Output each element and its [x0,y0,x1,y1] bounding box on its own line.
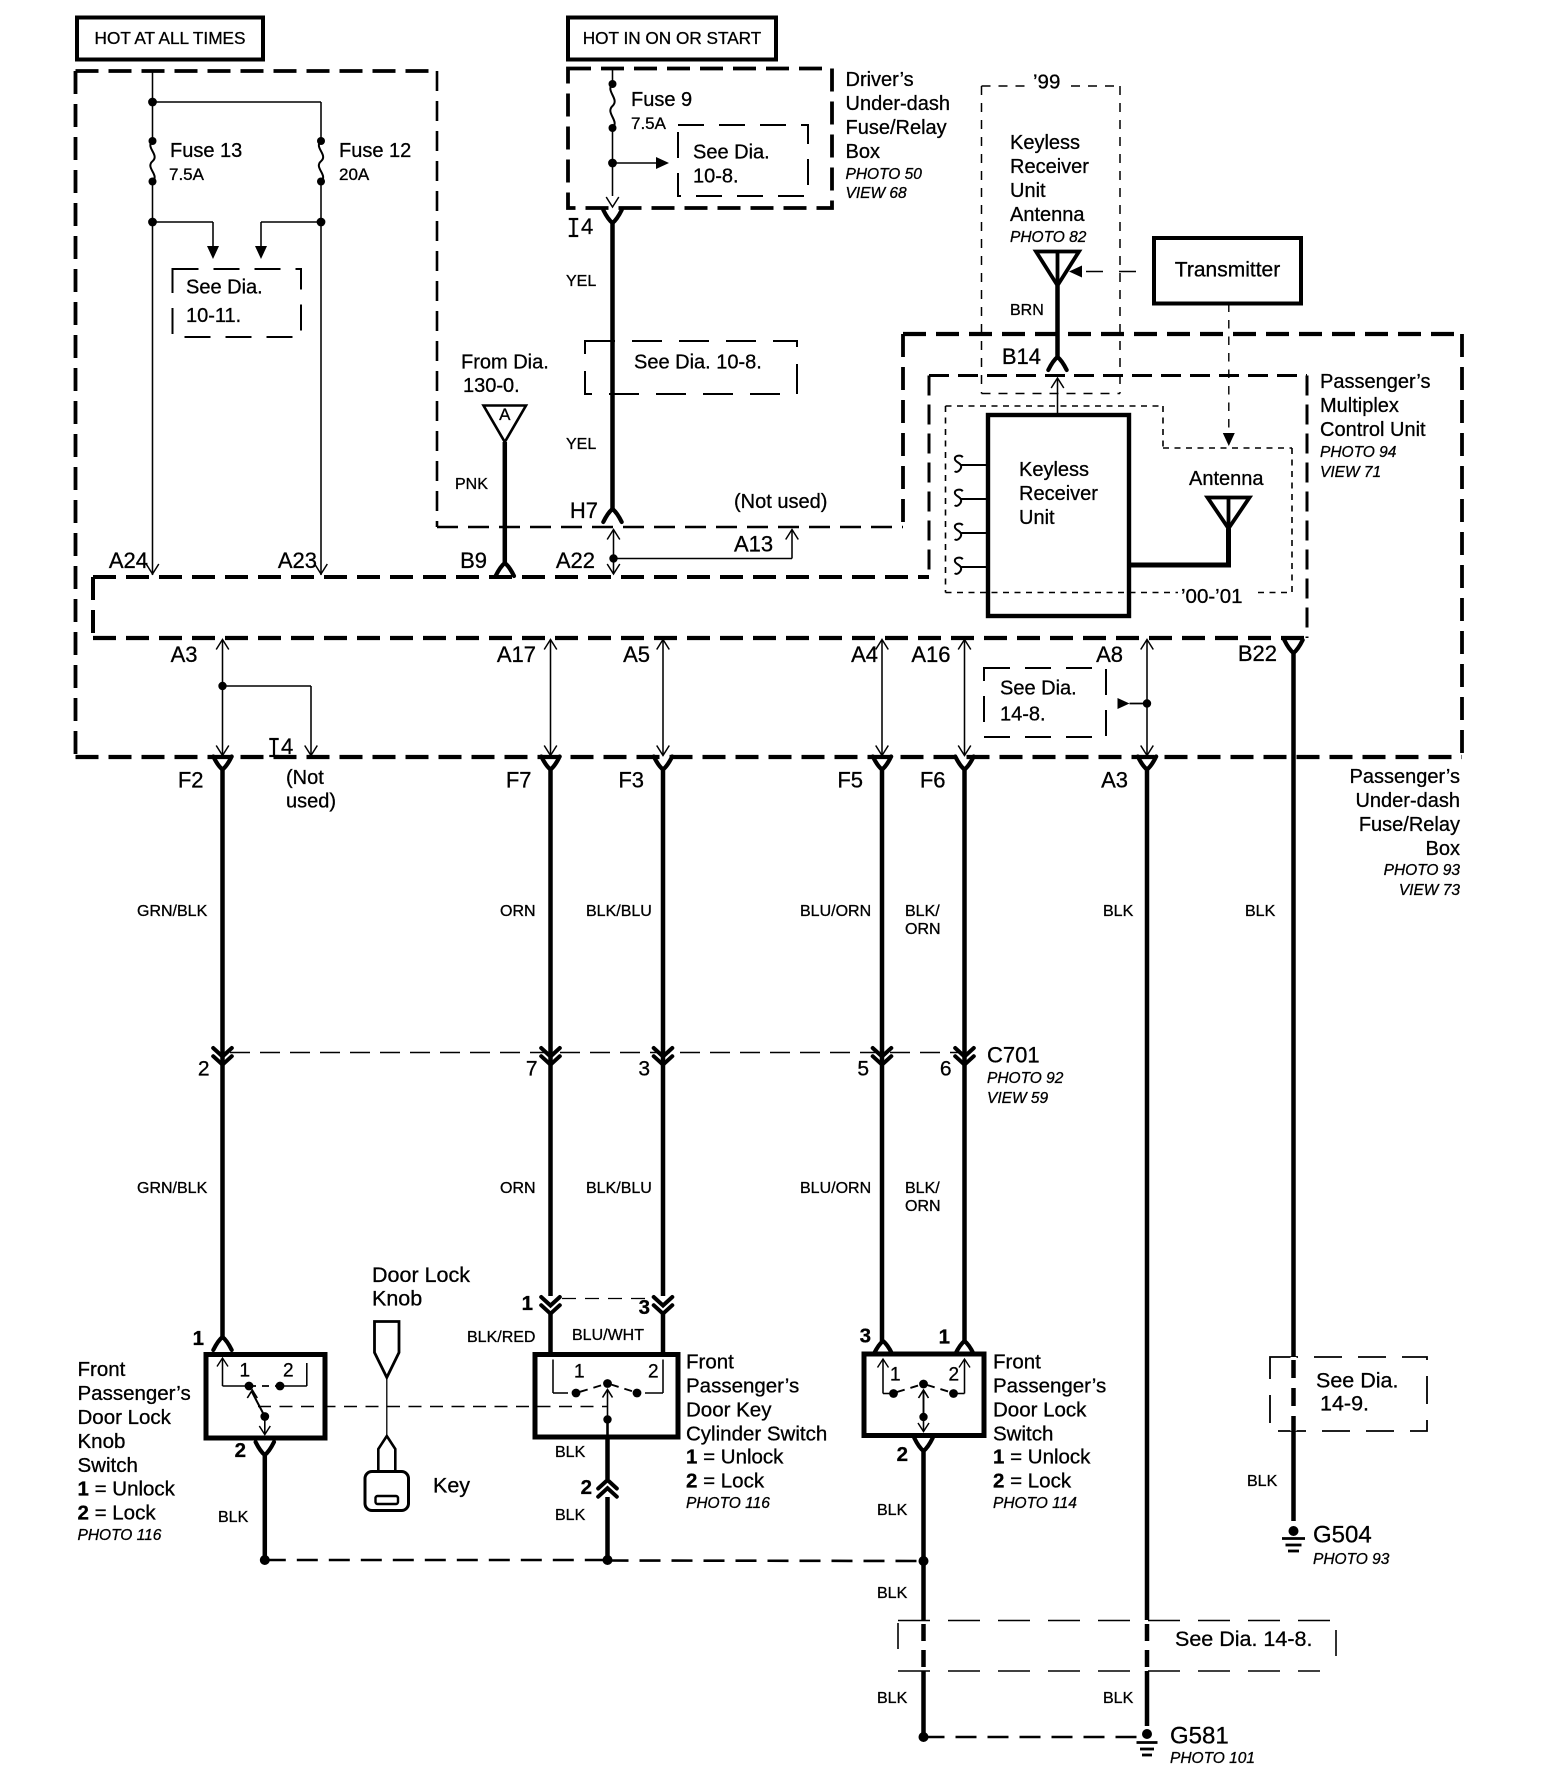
svg-text:BLU/ORN: BLU/ORN [800,1180,871,1197]
wire: fuse 13 output down to A24 [152,182,154,576]
knob switch wiper arm [252,1391,265,1417]
wire: branch from fuse 13 to See Dia. 10-11 [153,221,214,223]
lock switch pin 3 fork [874,1341,892,1354]
svg-text:2: 2 [283,1360,294,1381]
label box: HOT AT ALL TIMES [77,18,263,60]
svg-text:10-11.: 10-11. [186,305,241,327]
pin A16 to pin F6 wire [958,640,971,650]
in-line connector pin 1 (BLK/RED) [541,1297,560,1306]
passenger's under-dash fuse/relay box dashed line [76,755,1463,759]
svg-text:4: 4 [581,214,593,239]
svg-text:A17: A17 [497,642,536,667]
svg-text:Multiplex: Multiplex [1320,395,1399,417]
dashed link between in-line connector pins 1 and 3 [562,1298,652,1300]
rf signal dashed arrow from transmitter to '99 antenna [1086,271,1154,273]
svg-text:Keyless: Keyless [1010,132,1080,154]
svg-text:Antenna: Antenna [1010,204,1085,226]
svg-text:BLK: BLK [218,1509,249,1526]
pin A23 arrow into multiplex control unit [315,564,328,574]
wire BLU/ORN from F5 [880,770,885,1342]
wire: battery feed from HOT AT ALL TIMES to fuses [152,71,154,140]
fuse F13 7.5A [149,137,157,145]
svg-text:BLK/BLU: BLK/BLU [586,1180,652,1197]
key cylinder switch internal contacts [552,1360,554,1394]
svg-text:Door Lock: Door Lock [372,1263,470,1287]
svg-text:BLK: BLK [1103,1690,1134,1707]
svg-text:See Dia.: See Dia. [1316,1369,1398,1393]
lock switch common pole [919,1390,929,1398]
svg-text:PHOTO 50: PHOTO 50 [846,166,923,183]
wire BLU/WHT into key cylinder switch pin 3 [661,1314,666,1354]
svg-text:VIEW 68: VIEW 68 [846,185,908,202]
reference box: See Dia. 10-8. (on YEL wire) [585,341,797,394]
svg-text:C701: C701 [987,1043,1040,1068]
wire ORN from F7 [548,770,553,1297]
front passenger's door lock switch box [864,1354,984,1436]
svg-text:Key: Key [433,1474,470,1498]
connector B9, male fork at end of PNK wire [496,563,514,576]
svg-text:BLK: BLK [877,1502,908,1519]
keyless receiver unit pin curls (4x) [955,456,963,472]
svg-text:A8: A8 [1096,642,1123,667]
svg-text:Fuse/Relay: Fuse/Relay [1359,814,1460,836]
svg-text:B14: B14 [1002,344,1041,369]
svg-text:Fuse 9: Fuse 9 [631,89,692,111]
svg-text:GRN/BLK: GRN/BLK [137,903,208,920]
reference box: See Dia. 14-8. (inside multiplex-fusebox row) [984,668,1106,737]
svg-text:B22: B22 [1238,641,1277,666]
reference box: See Dia. 10-11. [173,269,302,337]
svg-text:Under-dash: Under-dash [846,93,951,115]
svg-text:7.5A: 7.5A [631,114,667,133]
svg-text:Front: Front [993,1351,1041,1374]
off-page connector triangle A from Dia. 130-0 [484,406,527,443]
svg-text:PHOTO 116: PHOTO 116 [686,1495,770,1512]
lock switch pin 2 cup [914,1438,932,1451]
svg-text:1: 1 [522,1292,533,1315]
wire BLK (A3) from See Dia 14-8 to ground G581 [1145,1671,1150,1726]
svg-text:PHOTO 94: PHOTO 94 [1320,444,1397,461]
svg-text:GRN/BLK: GRN/BLK [137,1180,208,1197]
key cylinder switch common pole [603,1390,613,1398]
svg-text:Under-dash: Under-dash [1355,790,1460,812]
svg-text:Cylinder Switch: Cylinder Switch [686,1423,827,1446]
arrow: fuse 9 wire exits box at I4 [606,197,619,207]
wire: ignition feed to fuse 9 [612,69,614,84]
svg-text:PHOTO 93: PHOTO 93 [1384,862,1461,879]
reference box: See Dia. 10-8. (inside fuse box) [678,125,808,196]
svg-text:A5: A5 [623,642,650,667]
wire A13 (not used) [614,558,793,560]
svg-text:1 = Unlock: 1 = Unlock [78,1478,176,1501]
svg-text:F6: F6 [920,768,946,793]
svg-text:1 = Unlock: 1 = Unlock [993,1446,1091,1469]
wire: antenna to keyless receiver unit [1129,529,1229,566]
svg-text:A: A [499,405,511,424]
wire BLK from fuse box pin A3 down to G581 [1145,770,1150,1621]
branch arrow symbol to See Dia 14-8 on A8 wire [1118,698,1130,709]
svg-text:BLK/: BLK/ [905,903,940,920]
reference box: See Dia. 14-8. (bottom) [898,1620,1348,1622]
svg-text:Door Lock: Door Lock [993,1399,1087,1422]
'00-'01 variant dotted box around keyless receiver unit and antenna [946,405,1164,407]
door lock knob symbol [375,1322,400,1378]
svg-text:130-0.: 130-0. [463,375,520,397]
svg-text:10-8.: 10-8. [693,166,739,188]
arrow: B14 wire into keyless receiver unit [1051,378,1064,388]
svg-text:YEL: YEL [566,436,596,453]
svg-text:Driver’s: Driver’s [846,69,914,91]
svg-text:See Dia.: See Dia. [1000,678,1077,700]
wire: branch from fuse 12 to See Dia. 10-11 [261,221,321,223]
svg-text:(Not used): (Not used) [734,491,827,513]
svg-text:14-8.: 14-8. [1000,704,1046,726]
svg-text:1: 1 [939,1326,950,1349]
svg-text:1: 1 [193,1327,204,1350]
svg-text:A22: A22 [556,548,595,573]
svg-text:7.5A: 7.5A [169,165,205,184]
svg-text:BLK/: BLK/ [905,1180,940,1197]
front passenger's door key cylinder switch box [535,1355,678,1438]
svg-text:2: 2 [235,1439,246,1462]
pin A3 to pin F2 wire [216,640,229,650]
svg-text:(Not: (Not [286,767,324,789]
'99 variant dashed box (keyless receiver unit antenna) [982,85,1031,87]
wire BLK from See Dia 14-8 to G581 splice [921,1671,926,1737]
svg-text:1: 1 [240,1360,251,1381]
svg-text:YEL: YEL [566,273,596,290]
in-line connector pin 3 (BLU/WHT) [654,1297,673,1306]
svg-text:2 = Lock: 2 = Lock [686,1470,765,1493]
svg-text:5: 5 [857,1057,869,1080]
rf signal dashed arrow from transmitter down to '00-'01 antenna [1228,304,1230,434]
ground G581 [1142,1729,1152,1739]
svg-text:BRN: BRN [1010,302,1044,319]
connector B14, male fork [1048,357,1066,370]
wire BLK from lock switch pin 2 [921,1451,926,1561]
svg-text:PHOTO 92: PHOTO 92 [987,1070,1064,1087]
connector C701 pin 7 [541,1048,560,1057]
svg-text:H7: H7 [570,498,598,523]
lock switch pin 1 fork [955,1341,973,1354]
svg-text:PHOTO 114: PHOTO 114 [993,1495,1077,1512]
svg-text:BLU/ORN: BLU/ORN [800,903,871,920]
wire BLK dashed through See Dia 14-8 box [921,1620,926,1671]
svg-text:Door Lock: Door Lock [78,1406,172,1429]
svg-text:BLU/WHT: BLU/WHT [572,1327,644,1344]
svg-text:Box: Box [1426,838,1460,860]
svg-text:Passenger’s: Passenger’s [993,1375,1106,1398]
wire BLK/ORN from F6 [962,770,967,1342]
svg-text:See Dia. 14-8.: See Dia. 14-8. [1175,1627,1312,1651]
svg-text:Unit: Unit [1019,507,1055,529]
svg-text:’00-’01: ’00-’01 [1181,585,1243,608]
svg-text:’99: ’99 [1033,71,1060,94]
svg-text:2: 2 [949,1364,960,1385]
antenna symbol ('99 keyless receiver unit antenna) [1036,252,1079,286]
key symbol [378,1436,395,1472]
svg-text:1: 1 [890,1364,901,1385]
svg-text:Knob: Knob [78,1430,126,1453]
svg-text:PHOTO 116: PHOTO 116 [78,1527,162,1544]
branch to I4 (not used) on A3/F2 wire [218,682,226,690]
svg-text:6: 6 [940,1057,952,1080]
knob switch pin 1 fork [213,1337,231,1350]
wire YEL from I4 to H7 [610,223,615,509]
connector C701 pin 2 [213,1048,232,1057]
svg-text:Unit: Unit [1010,180,1046,202]
ground G504 [1289,1526,1299,1536]
svg-text:PHOTO 93: PHOTO 93 [1313,1551,1390,1568]
svg-text:2: 2 [581,1476,592,1499]
svg-text:BLK: BLK [1245,903,1276,920]
svg-text:1: 1 [574,1361,585,1382]
svg-text:PHOTO 82: PHOTO 82 [1010,229,1087,246]
svg-text:2: 2 [198,1057,210,1080]
connector C701 pin 6 [955,1048,974,1057]
svg-text:ORN: ORN [905,1198,941,1215]
svg-text:BLK/BLU: BLK/BLU [586,903,652,920]
label box: HOT IN ON OR START [568,18,776,60]
svg-text:Switch: Switch [993,1423,1053,1446]
svg-text:BLK: BLK [1103,903,1134,920]
svg-text:Door Key: Door Key [686,1399,772,1422]
connector H7, male fork at end of YEL wire [603,509,621,522]
svg-text:A3: A3 [1101,768,1128,793]
wire BLK from key cylinder switch pin 2 [605,1437,610,1479]
reference box: See Dia. 14-9. [1270,1357,1427,1431]
in-line connector 2 on key cylinder BLK wire [598,1480,617,1489]
lock switch internal contacts [878,1359,889,1368]
wire BLK from knob switch pin 2 [263,1455,268,1560]
svg-text:PNK: PNK [455,476,488,493]
svg-text:Passenger’s: Passenger’s [1350,766,1460,788]
svg-text:PHOTO 101: PHOTO 101 [1170,1750,1255,1767]
pin A24 arrow into multiplex control unit [146,564,159,574]
svg-text:F5: F5 [837,768,863,793]
svg-text:Passenger’s: Passenger’s [78,1382,191,1405]
connector I4 (top), female cup [603,210,621,223]
wire BLK/RED into key cylinder switch pin 1 [548,1314,553,1354]
svg-text:2: 2 [897,1443,908,1466]
antenna symbol ('00-'01, inside multiplex unit) [1208,498,1250,529]
svg-text:Keyless: Keyless [1019,459,1089,481]
svg-text:HOT IN ON OR START: HOT IN ON OR START [583,28,762,48]
mechanical rod knob to key [386,1378,388,1437]
svg-text:Antenna: Antenna [1189,468,1264,490]
svg-text:G581: G581 [1170,1723,1229,1750]
svg-text:A23: A23 [278,548,317,573]
knob switch internal contacts [217,1358,228,1367]
lock switch wiper (dashed) [897,1385,920,1392]
svg-text:BLK: BLK [877,1690,908,1707]
wire BLK from splice down to See Dia 14-8 [921,1561,926,1620]
svg-text:7: 7 [526,1057,538,1080]
label: I4 (middle) [269,738,279,740]
wire PNK from triangle A to B9 [503,442,508,563]
svg-text:Receiver: Receiver [1019,483,1098,505]
svg-text:Control Unit: Control Unit [1320,419,1426,441]
pin A8 to pin A3 wire [1141,640,1154,650]
svg-text:14-9.: 14-9. [1320,1392,1369,1416]
transmitter box [1154,238,1301,304]
svg-text:2 = Lock: 2 = Lock [993,1470,1072,1493]
fuse box output cups F2/F7/F3/F5/F6/A3 [213,757,231,770]
svg-text:2: 2 [648,1361,659,1382]
svg-text:Passenger’s: Passenger’s [686,1375,799,1398]
driver's under-dash fuse/relay box (fuse 9, dashed outline) [568,69,832,209]
svg-text:BLK: BLK [1247,1473,1278,1490]
connector C701 dashed line [230,1052,966,1054]
svg-text:VIEW 73: VIEW 73 [1399,882,1461,899]
svg-text:ORN: ORN [500,1180,536,1197]
driver's under-dash fuse/relay box (left part, dashed outline) [76,69,438,73]
pin A22 double arrow (H7 to multiplex) [607,530,620,540]
svg-text:BLK: BLK [555,1507,586,1524]
svg-text:3: 3 [638,1057,650,1080]
label: I4 [569,218,579,220]
svg-text:Front: Front [686,1351,734,1374]
svg-text:Passenger’s: Passenger’s [1320,371,1430,393]
connector B22 cup and wire down [1284,640,1302,653]
wire: fuse 12 output down to A23 [320,182,322,576]
splice junction dashed line (three BLK wires) [260,1555,270,1565]
svg-text:Switch: Switch [78,1454,138,1477]
pin A5 to pin F3 wire [657,640,670,650]
fuse F9 7.5A [609,80,617,88]
svg-text:See Dia.: See Dia. [186,277,263,299]
svg-text:Knob: Knob [372,1287,422,1311]
svg-text:F2: F2 [178,768,204,793]
svg-text:See Dia.: See Dia. [693,142,770,164]
wire BLK/BLU from F3 [661,770,666,1297]
splice dashed line to G581 [919,1732,929,1742]
svg-text:Fuse 12: Fuse 12 [339,140,411,162]
svg-text:3: 3 [860,1325,871,1348]
svg-text:Front: Front [78,1358,126,1381]
svg-text:G504: G504 [1313,1522,1372,1549]
svg-text:A24: A24 [109,548,148,573]
svg-text:F7: F7 [506,768,532,793]
svg-text:B9: B9 [460,548,487,573]
connector C701 pin 5 [873,1048,892,1057]
wire BRN from antenna to B14 [1055,286,1060,358]
svg-text:BLK: BLK [877,1585,908,1602]
passenger's multiplex control unit dashed outline [903,332,1462,336]
svg-text:A3: A3 [171,642,198,667]
knob switch pin 2 cup [256,1442,274,1455]
svg-text:VIEW 59: VIEW 59 [987,1090,1049,1107]
svg-text:3: 3 [639,1296,650,1319]
svg-text:HOT AT ALL TIMES: HOT AT ALL TIMES [95,28,246,48]
svg-text:2 = Lock: 2 = Lock [78,1502,157,1525]
svg-text:Box: Box [846,141,880,163]
pin A17 to pin F7 wire [544,640,557,650]
svg-text:A13: A13 [734,532,773,557]
connector C701 pin 3 [654,1048,673,1057]
svg-text:Fuse/Relay: Fuse/Relay [846,117,947,139]
keyless receiver unit box [988,415,1129,616]
svg-text:Receiver: Receiver [1010,156,1089,178]
svg-text:A16: A16 [911,642,950,667]
svg-text:Transmitter: Transmitter [1175,258,1280,281]
wire GRN/BLK from F2 [220,770,225,1338]
pin A4 to pin F5 wire [876,640,889,650]
svg-text:A4: A4 [851,642,878,667]
svg-text:See Dia. 10-8.: See Dia. 10-8. [634,352,762,374]
wire: branch arrow to See Dia. 10-8 [613,162,658,164]
svg-text:1 = Unlock: 1 = Unlock [686,1446,784,1469]
key cylinder switch wiper (dashed) [580,1385,604,1392]
front passenger's door lock knob switch box [206,1355,325,1439]
svg-text:used): used) [286,791,336,813]
svg-text:ORN: ORN [905,921,941,938]
fuse F12 20A [317,137,325,145]
svg-text:Fuse 13: Fuse 13 [170,140,242,162]
svg-text:ORN: ORN [500,903,536,920]
mechanical linkage dashed line (knob - key - cylinder - lock switch) [258,1406,607,1408]
svg-text:BLK/RED: BLK/RED [467,1329,535,1346]
svg-text:VIEW 71: VIEW 71 [1320,464,1381,481]
svg-text:20A: 20A [339,165,370,184]
svg-text:From Dia.: From Dia. [461,352,549,374]
wire: fuse 9 output [612,128,614,196]
svg-text:F3: F3 [618,768,644,793]
svg-text:BLK: BLK [555,1444,586,1461]
